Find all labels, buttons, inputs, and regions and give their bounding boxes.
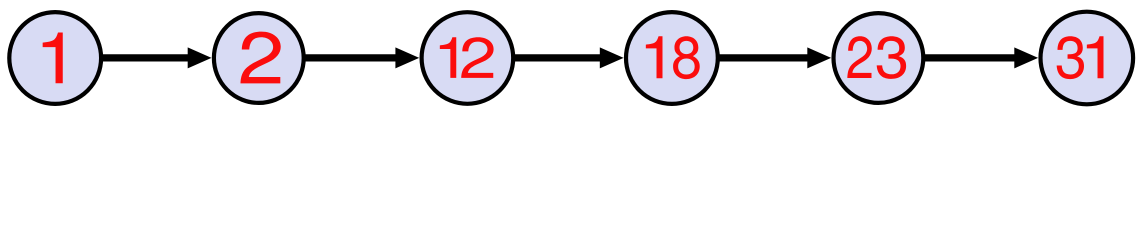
node 1 circle [9, 12, 101, 104]
wire 1->2 [100, 54, 190, 61]
arrowhead 18->23 [807, 47, 831, 68]
wire 12->18 [512, 54, 602, 61]
node 18 circle [626, 12, 718, 104]
node 31 circle [1041, 12, 1134, 105]
arrowhead 2->12 [395, 47, 419, 68]
wire 18->23 [716, 54, 808, 61]
node 12 label "12" [440, 37, 494, 78]
node 2 circle [214, 13, 304, 103]
wire 23->31 [922, 54, 1016, 61]
node 1 label "1" [43, 33, 63, 84]
node 23 label "23" [847, 36, 906, 79]
arrowhead 23->31 [1014, 47, 1038, 68]
node 12 circle [422, 12, 514, 104]
wire 2->12 [302, 54, 397, 61]
node 23 circle [834, 13, 924, 103]
node 31 label "31" [1057, 36, 1104, 79]
arrowhead 12->18 [600, 47, 624, 68]
node 2 label "2" [240, 32, 280, 84]
node 18 label "18" [646, 36, 700, 79]
arrowhead 1->2 [188, 47, 212, 68]
